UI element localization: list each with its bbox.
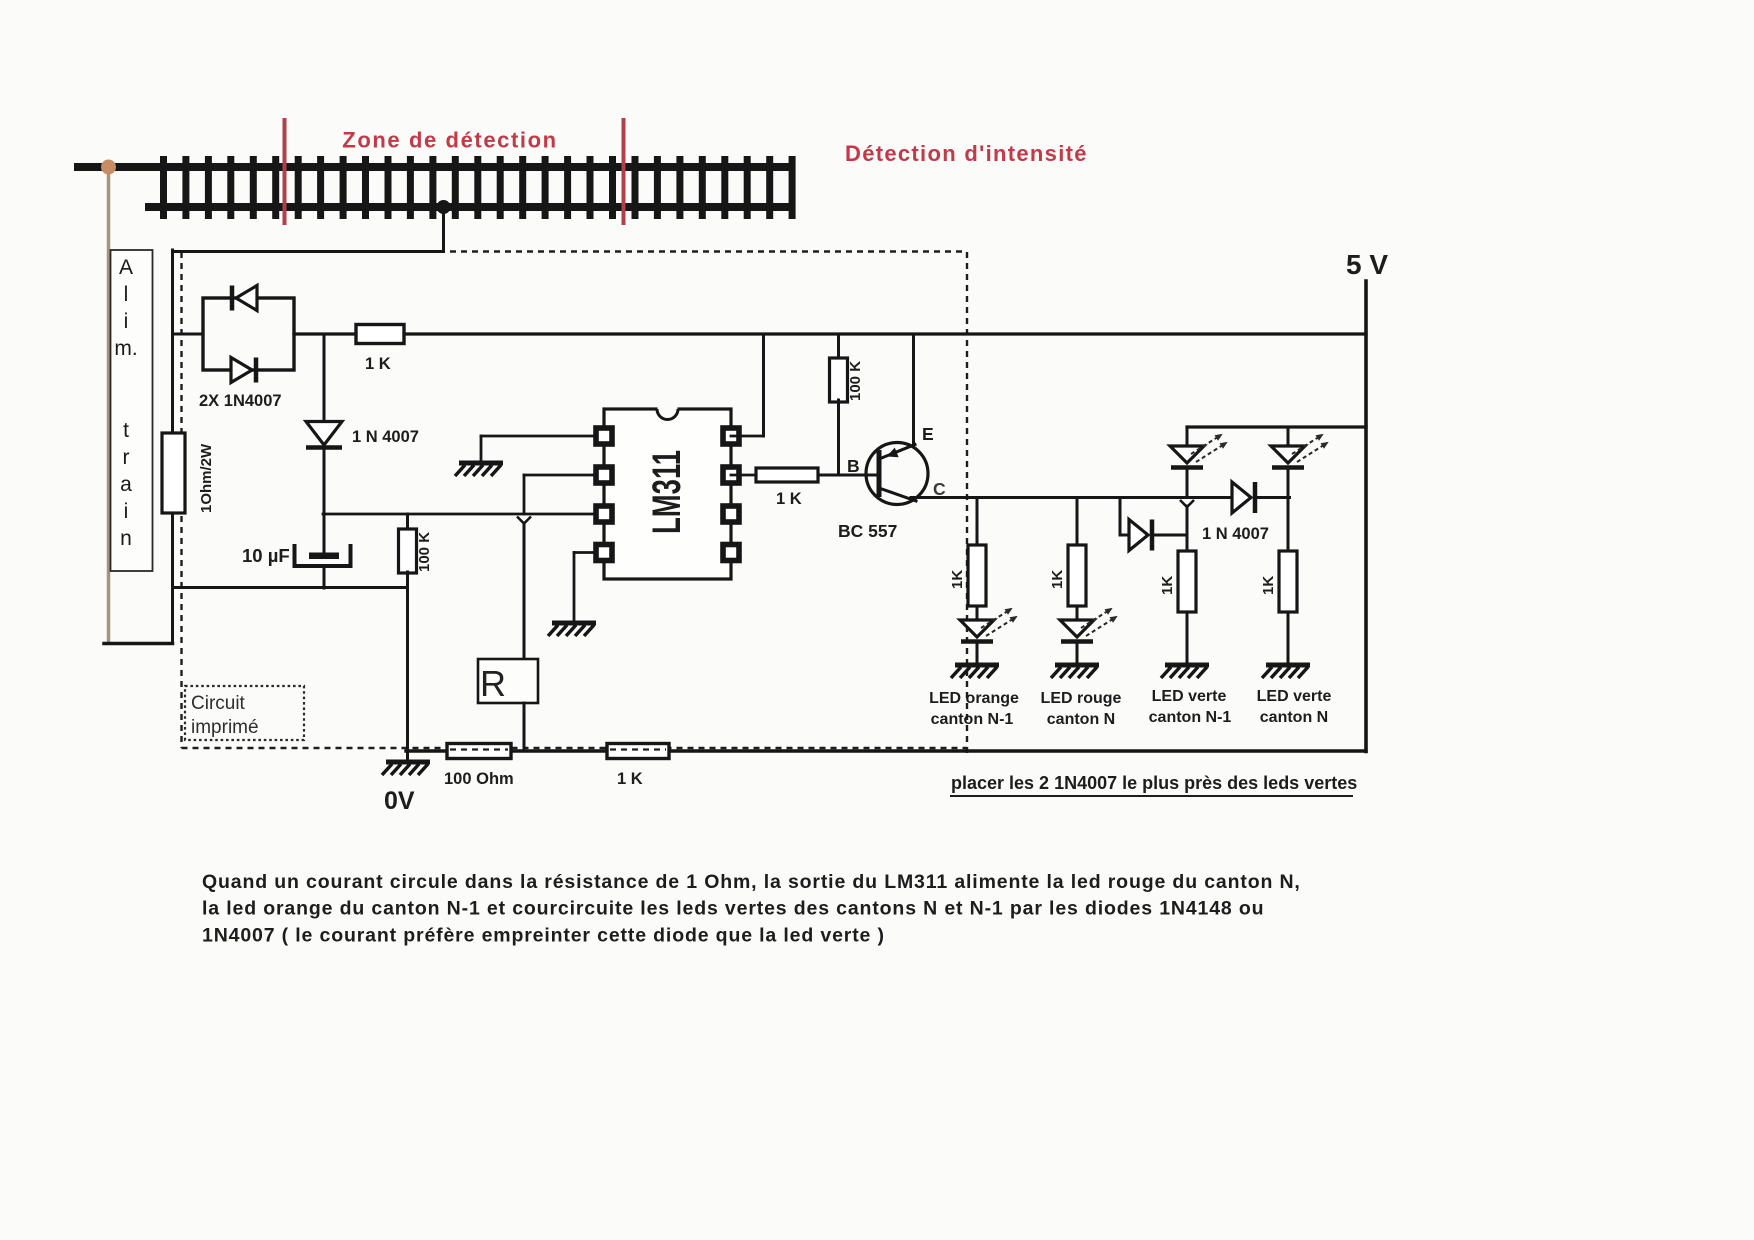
wire 1K to LED orange [976, 606, 979, 620]
wire base resistor to Q1 [818, 474, 878, 477]
svg-text:1 K: 1 K [365, 355, 391, 373]
resistor 1K (green N-1) [1178, 551, 1196, 612]
diode 1N4007 shorting (right) [1232, 482, 1251, 513]
svg-text:1Ohm/2W: 1Ohm/2W [198, 443, 215, 513]
zone marker left (red) [283, 118, 287, 225]
svg-text:BC 557: BC 557 [838, 521, 897, 541]
wire R to 0V rail [523, 703, 526, 751]
wire collector line [911, 496, 1232, 499]
ground LED orange [955, 663, 999, 668]
svg-text:canton N-1: canton N-1 [1149, 709, 1232, 726]
Q1 emitter arrow (PNP) [887, 448, 899, 458]
resistor 1K (LED rouge) [1068, 545, 1086, 606]
Alim. train box [111, 250, 153, 571]
svg-text:2X 1N4007: 2X 1N4007 [199, 392, 282, 410]
LED verte canton N [1271, 446, 1305, 463]
capacitor 10µF top plate [309, 553, 339, 560]
wire green N-1 from feed [1186, 427, 1189, 446]
svg-text:LM311: LM311 [645, 450, 689, 534]
dashed PCB outline through resistors [450, 748, 508, 750]
resistor 1K (base) [756, 468, 818, 482]
wire green N-1 to ground [1186, 612, 1189, 665]
resistor R 1K (top) [356, 325, 404, 344]
wire LM311 pin4 to ground [574, 551, 593, 554]
svg-text:canton N: canton N [1047, 711, 1115, 728]
wire green N cathode down [1287, 469, 1290, 552]
ground at LM311 pin4 [552, 621, 596, 626]
wire green N from feed [1287, 427, 1290, 446]
wire 100K down to 0V rail [406, 572, 409, 750]
LED rouge canton N [1060, 620, 1094, 637]
wire hop green LED N-1 over collector line [1180, 500, 1194, 507]
op-amp comparator U1 LM311 body [604, 409, 731, 579]
svg-text:t: t [123, 419, 129, 442]
svg-text:1 N 4007: 1 N 4007 [1202, 525, 1269, 543]
svg-text:la led orange du canton N-1 et: la led orange du canton N-1 et courcircu… [202, 898, 1264, 920]
Q1 emitter lead [879, 445, 915, 460]
svg-text:1 K: 1 K [617, 770, 643, 788]
svg-text:1K: 1K [1159, 576, 1176, 595]
transistor Q1 BC557 circle [866, 443, 928, 505]
svg-text:i: i [124, 500, 129, 523]
ground green N [1266, 663, 1310, 668]
wire left vertical (track feed bus) [171, 250, 174, 644]
wire LM311 pin7 to base resistor [731, 474, 756, 477]
node track sense tap (dot) [437, 200, 451, 214]
wire 0V rail (bottom) [406, 749, 1366, 752]
svg-text:100 Ohm: 100 Ohm [444, 770, 514, 788]
diode 1N4007 shorting (left) [1129, 520, 1148, 551]
wire cap to lower bus [323, 568, 326, 588]
wire 100K stub up [406, 514, 409, 530]
svg-text:1K: 1K [1260, 576, 1277, 595]
wire green N-1 cathode down [1186, 469, 1189, 496]
wire 100K pullup to base [837, 400, 840, 475]
wire rouge LED column upper [1076, 498, 1079, 547]
svg-text:1K: 1K [949, 570, 966, 589]
svg-text:canton N: canton N [1260, 709, 1328, 726]
wire R-line into R [523, 660, 526, 704]
wire lower bus horizontal [173, 586, 408, 589]
dashed circuit board outline right [966, 252, 968, 758]
svg-text:100 K: 100 K [416, 532, 433, 572]
wire emitter to +rail [912, 334, 915, 446]
diode D2 (bottom, pointing right) [231, 358, 252, 383]
resistor 1Ohm/2W [162, 433, 185, 513]
wire Alim train to left rail (brown) [107, 167, 111, 643]
resistor 100K (left) [399, 529, 417, 573]
wire bottom left to Alim [104, 642, 173, 646]
LM311 pins [596, 428, 612, 444]
capacitor 10µF bottom plate (U) [295, 544, 351, 566]
dashed circuit board outline bottom [182, 747, 968, 749]
svg-text:Circuit: Circuit [191, 693, 246, 714]
wire orange LED column upper [976, 498, 979, 547]
wire LM311 pin8 to +rail [731, 435, 764, 438]
Q1 base bar [877, 450, 882, 497]
ground at LM311 pin1 [459, 461, 503, 466]
wire diode to cap [323, 449, 326, 553]
svg-text:0V: 0V [384, 787, 415, 815]
wire 5V rail (right vertical) [1364, 281, 1368, 752]
wire stub to shorting diode (left) [1119, 498, 1122, 536]
Q1 collector lead [879, 488, 916, 501]
wire to diode pair [173, 333, 204, 336]
antiparallel diode pair loop [203, 298, 294, 370]
wire LM311 pin2 to R [524, 474, 593, 477]
dotted box Circuit imprimé [185, 686, 304, 740]
svg-text:LED verte: LED verte [1152, 688, 1227, 705]
resistor 1K (LED orange) [968, 545, 986, 606]
wire LED orange to ground [976, 643, 979, 665]
LED verte canton N-1 [1170, 446, 1204, 463]
svg-text:placer les 2 1N4007 le plus pr: placer les 2 1N4007 le plus près des led… [951, 773, 1357, 793]
svg-text:Détection d'intensité: Détection d'intensité [845, 141, 1088, 166]
wire green N to ground [1287, 612, 1290, 665]
svg-text:a: a [120, 473, 132, 496]
LM311 notch [658, 405, 678, 414]
wire LM311 pin1 to ground [481, 435, 593, 438]
wire hop R-line over pin3 wire [517, 517, 531, 524]
wire 1K to LED rouge [1076, 606, 1079, 620]
svg-text:LED verte: LED verte [1257, 688, 1332, 705]
svg-text:Quand un courant circule dans: Quand un courant circule dans la résista… [202, 871, 1301, 893]
svg-text:l: l [124, 283, 129, 306]
wire diode to green LED N column [1256, 496, 1290, 499]
wire LED rouge to ground [1076, 643, 1079, 665]
svg-text:i: i [124, 310, 129, 333]
wire R-line down [523, 523, 526, 660]
resistor 1K (bottom) [607, 744, 669, 759]
svg-text:n: n [120, 527, 132, 550]
diode 1N4007 (vertical, pointing down) [306, 422, 342, 446]
svg-text:A: A [119, 256, 133, 279]
svg-text:Zone de détection: Zone de détection [342, 128, 557, 153]
svg-text:1K: 1K [1049, 570, 1066, 589]
wire left shorting diode to green N-1 column [1153, 534, 1186, 537]
svg-text:10 µF: 10 µF [242, 545, 290, 566]
dashed circuit board outline left [180, 252, 182, 748]
ground green N-1 [1165, 663, 1209, 668]
svg-text:LED rouge: LED rouge [1041, 690, 1122, 707]
resistor 100K (pullup) [830, 358, 848, 402]
svg-text:B: B [847, 456, 860, 476]
svg-text:1 N 4007: 1 N 4007 [352, 428, 419, 446]
wire node A to LM311 pin3 [323, 513, 593, 516]
railroad track ties [160, 156, 167, 219]
svg-text:1 K: 1 K [776, 490, 802, 508]
wire +rail (top horizontal) [294, 332, 1366, 335]
svg-text:E: E [922, 424, 934, 444]
diode D1 (top, pointing left) [236, 286, 257, 311]
ground LED rouge [1055, 663, 1099, 668]
svg-text:imprimé: imprimé [191, 717, 259, 738]
resistor 100 Ohm [447, 744, 511, 759]
railroad track bottom rail [145, 203, 795, 211]
svg-text:5 V: 5 V [1346, 249, 1388, 280]
railroad track top rail / wire to Alim [74, 163, 792, 171]
LED orange canton N-1 [960, 620, 994, 637]
ground 0V [406, 750, 409, 762]
svg-text:100 K: 100 K [847, 361, 864, 401]
svg-text:LED orange: LED orange [929, 690, 1019, 707]
svg-text:R: R [480, 663, 506, 704]
svg-text:m.: m. [114, 337, 137, 360]
wire diode drop upper [323, 334, 326, 421]
resistor 1K (green N) [1279, 551, 1297, 612]
node track feed left (brown dot) [101, 160, 116, 175]
component R (detector output) [478, 659, 538, 703]
dashed circuit board outline top [450, 250, 967, 252]
wire green N-1 below hop [1186, 506, 1189, 552]
zone marker right (red) [622, 118, 626, 225]
svg-text:r: r [123, 446, 130, 469]
svg-text:canton N-1: canton N-1 [931, 711, 1014, 728]
wire track sense tap [442, 207, 445, 252]
wire green LED feed from 5V [1187, 425, 1366, 428]
wire 100K pullup top [837, 334, 840, 359]
svg-text:1N4007 ( le courant préfère em: 1N4007 ( le courant préfère empreinter c… [202, 924, 885, 946]
